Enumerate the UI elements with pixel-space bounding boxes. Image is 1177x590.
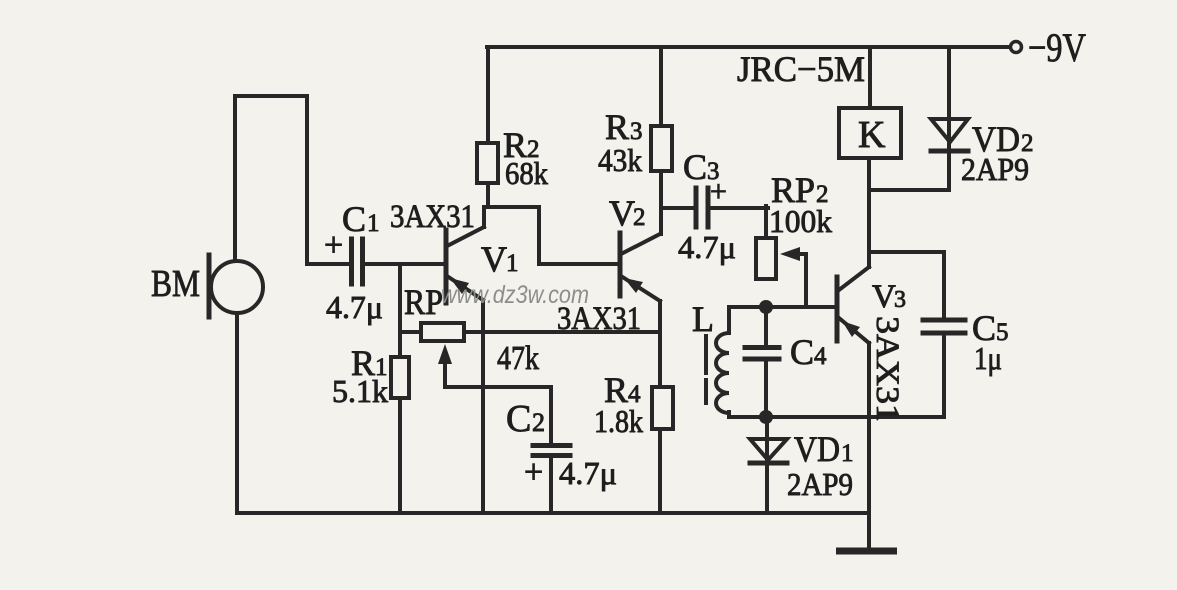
wire left loop from BM to C1 — [235, 96, 307, 264]
relay K box — [839, 108, 901, 158]
svg-text:3: 3 — [894, 287, 906, 313]
wire K top — [868, 47, 872, 108]
node -9V supply terminal — [1011, 25, 1087, 70]
svg-text:3: 3 — [630, 118, 643, 145]
transistor V2 3AX31 — [609, 193, 660, 301]
svg-text:BM: BM — [151, 263, 200, 305]
wire top supply rail — [487, 45, 1009, 49]
svg-text:100k: 100k — [769, 203, 832, 239]
diode VD2 2AP9 — [931, 47, 1034, 190]
inductor L — [692, 299, 729, 417]
svg-text:2: 2 — [633, 204, 646, 231]
label 3AX31 for V2 — [557, 301, 641, 337]
resistor R3 43k — [598, 107, 672, 178]
svg-text:1μ: 1μ — [974, 340, 1002, 376]
wire R3 top — [659, 47, 663, 126]
wire C3 to RP2 top — [764, 206, 768, 238]
wire R1 top — [398, 264, 402, 357]
inductor core dashes — [704, 336, 708, 403]
svg-text:www.dz3w.com: www.dz3w.com — [441, 281, 589, 309]
wire BM bottom — [235, 313, 239, 513]
svg-text:2AP9: 2AP9 — [961, 151, 1029, 187]
svg-text:+: + — [524, 454, 543, 491]
resistor R1 5.1k — [332, 343, 409, 409]
svg-text:K: K — [858, 114, 886, 156]
svg-text:2AP9: 2AP9 — [787, 466, 853, 502]
capacitor C2 4.7u electrolytic — [506, 387, 617, 513]
wire V2 emitter to R4 — [658, 301, 662, 387]
diode VD1 2AP9 — [750, 417, 854, 513]
capacitor C5 1u — [923, 308, 1009, 417]
svg-text:V: V — [609, 193, 635, 233]
resistor R2 — [477, 125, 548, 191]
label 3AX31 for V1 — [390, 199, 475, 235]
wire VD2 bottom to K bottom — [870, 188, 949, 192]
svg-text:L: L — [692, 299, 714, 339]
svg-text:68k: 68k — [505, 155, 548, 191]
svg-text:1: 1 — [506, 250, 519, 277]
wire R4 bottom — [658, 429, 662, 513]
watermark www.dz3w.com — [441, 281, 589, 309]
wire RP right to emitter rail — [464, 330, 660, 334]
wire C5 branch from collector — [869, 252, 944, 318]
wire bottom rail — [237, 511, 869, 515]
svg-text:V: V — [872, 279, 896, 315]
relay K JRC-5M label — [737, 49, 865, 89]
wire R3 bottom to V2 collector — [659, 171, 663, 234]
potentiometer RP2 100k — [756, 170, 832, 279]
svg-text:+: + — [710, 175, 727, 208]
svg-text:5.1k: 5.1k — [332, 373, 388, 409]
svg-text:4: 4 — [814, 343, 827, 370]
node junction RP2/C4 top — [759, 300, 773, 314]
wire R1 bottom — [398, 398, 402, 513]
svg-text:43k: 43k — [598, 142, 642, 178]
svg-text:JRC−5M: JRC−5M — [737, 49, 865, 89]
svg-text:47k: 47k — [497, 340, 539, 377]
potentiometer RP 47k — [400, 282, 539, 377]
wire tank bottom — [729, 415, 944, 419]
wire V1 emitter down to bottom rail — [481, 300, 485, 513]
node junction tank bottom — [759, 410, 773, 424]
svg-text:R: R — [605, 107, 629, 147]
wire R2 bottom to V1 collector junction — [486, 183, 490, 207]
wire V1 collector to V2 base (staircase) — [486, 207, 618, 264]
svg-text:1: 1 — [841, 440, 854, 467]
wire V3 emitter down to ground — [867, 343, 871, 551]
resistor R4 1.8k — [594, 370, 673, 439]
svg-text:1.8k: 1.8k — [594, 403, 643, 439]
svg-text:C: C — [683, 147, 707, 187]
svg-text:2: 2 — [532, 408, 545, 437]
wire R2 top — [486, 47, 490, 143]
svg-text:+: + — [324, 227, 343, 264]
wire RP wiper arrow to C2 — [438, 344, 551, 387]
svg-text:VD: VD — [794, 429, 840, 469]
svg-text:3AX31: 3AX31 — [869, 316, 905, 422]
svg-text:4.7μ: 4.7μ — [326, 289, 383, 325]
svg-text:1: 1 — [367, 210, 380, 237]
svg-text:C: C — [506, 398, 531, 440]
svg-text:−9V: −9V — [1028, 25, 1086, 70]
svg-text:3AX31: 3AX31 — [390, 199, 475, 235]
label 3AX31 for V3 (rotated) — [869, 316, 905, 422]
microphone BM — [151, 255, 263, 317]
capacitor C1 4.7u — [307, 199, 443, 325]
wire RP2 wiper to V3 base node — [780, 247, 806, 307]
capacitor C4 — [745, 307, 827, 417]
transistor V3 3AX31 — [837, 267, 906, 343]
svg-text:RP: RP — [404, 282, 443, 322]
capacitor C3 4.7u — [661, 147, 768, 265]
wire V3 collector up to relay K — [867, 158, 871, 267]
svg-text:C: C — [342, 199, 366, 239]
svg-text:4.7μ: 4.7μ — [678, 229, 736, 265]
wire tank top / V3 base — [729, 305, 837, 309]
svg-text:C: C — [790, 332, 814, 372]
transistor V1 3AX31 — [446, 207, 519, 303]
svg-text:V: V — [481, 239, 507, 279]
ground — [836, 548, 897, 555]
svg-text:4.7μ: 4.7μ — [559, 455, 617, 491]
